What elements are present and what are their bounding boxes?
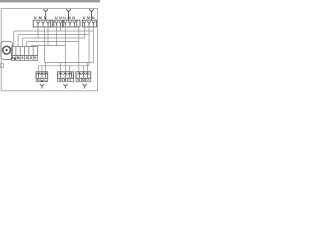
- label U M N above block X1: [34, 16, 47, 20]
- svg-text:2: 2: [21, 56, 23, 60]
- svg-text:U: U: [34, 16, 37, 20]
- pump P1 rotor circle: [3, 46, 11, 54]
- antenna A5 below X5: [63, 84, 67, 89]
- wire X7 terminal 1 drop: [38, 66, 40, 72]
- label U M N above block X3: [63, 16, 75, 20]
- wire X5 terminal 3 drop: [69, 66, 71, 72]
- svg-text:M: M: [82, 78, 85, 82]
- terminal plugs in X2: [55, 21, 62, 26]
- label U N above block X2: [55, 16, 62, 20]
- terminal block X6 (bottom right): [76, 72, 91, 79]
- svg-text:3: 3: [26, 56, 28, 60]
- bus wire b4: [27, 42, 78, 47]
- label row N M U under X6: [76, 78, 91, 81]
- svg-text:U: U: [63, 16, 66, 20]
- svg-text:N: N: [59, 16, 62, 20]
- wire X1.3 down to b5: [47, 27, 49, 46]
- antenna A3 above block X4: [89, 9, 94, 20]
- terminal block X2 (top): [54, 20, 63, 27]
- terminal block X5 (bottom middle): [58, 72, 74, 79]
- terminal plugs in X7: [37, 73, 48, 78]
- svg-text:U: U: [55, 16, 58, 20]
- svg-text:U: U: [83, 16, 86, 20]
- terminal block X1 (top): [33, 20, 52, 27]
- outer border frame of schematic: [1, 9, 97, 91]
- terminal block X7 (bottom left): [36, 72, 48, 79]
- wire X4.1 down to b3 end: [84, 27, 86, 38]
- bus wire b3: [22, 38, 84, 47]
- svg-text:M: M: [41, 79, 44, 83]
- label row N M U under X5: [58, 78, 74, 81]
- bus wire b2: [18, 35, 89, 47]
- svg-text:M: M: [39, 16, 42, 20]
- terminal block X3 (top): [63, 20, 80, 27]
- terminal plugs in X6: [78, 73, 90, 78]
- label row N M U under X7: [36, 78, 48, 81]
- svg-text:M: M: [87, 16, 90, 20]
- terminal plugs in X4: [83, 21, 95, 26]
- wire X1.1 down to b3: [37, 27, 39, 38]
- pump P1 (left device): [1, 41, 13, 59]
- svg-text:M: M: [64, 78, 67, 82]
- pump P1 center dot: [6, 49, 8, 51]
- svg-text:N: N: [44, 16, 47, 20]
- wire X5 terminal 1 drop: [60, 63, 62, 72]
- wire X3.1 straight down to block X5 terminal 2: [64, 27, 66, 72]
- antenna A2 above block X3: [66, 9, 71, 20]
- wire X4.2 down to feeder bus fb: [88, 27, 90, 66]
- wire X6 terminal 2 drop: [83, 66, 85, 72]
- svg-text:N: N: [17, 56, 20, 60]
- antenna A6 below X6: [83, 84, 87, 89]
- wire X2.2 down to b1: [60, 27, 62, 31]
- svg-text:M: M: [68, 16, 71, 20]
- terminal block X4 (top): [82, 20, 96, 27]
- terminal plugs in X5: [59, 73, 72, 78]
- small connector on left border: [1, 64, 4, 68]
- wire X1.2 down to feeder bus fa corner: [44, 27, 46, 63]
- wire X2.1 down to b5: [56, 27, 58, 46]
- bus wire b5: [31, 46, 65, 48]
- svg-text:N: N: [92, 16, 95, 20]
- wire X7 terminal 2 drop: [41, 66, 43, 72]
- top gray band: [0, 0, 100, 2]
- wire X7 terminal 3 drop: [45, 63, 47, 72]
- feeder bus fb: [39, 65, 90, 67]
- terminal strip XS cells: [12, 47, 38, 56]
- wire X6 terminal 3 drop: [87, 63, 89, 72]
- feeder bus fa: [45, 62, 94, 64]
- antenna A4 below X7: [40, 84, 44, 89]
- svg-text:U: U: [45, 79, 48, 83]
- svg-text:N: N: [72, 16, 75, 20]
- svg-text:2: 2: [30, 56, 32, 60]
- terminal strip labels PE N 2 3 2 0: [11, 56, 36, 61]
- antenna A1 above block X1: [43, 9, 48, 20]
- wire X3 spare cell straight down to block X6 terminal 1: [78, 27, 80, 72]
- bus wire b1: [14, 31, 94, 47]
- terminal strip XS label row: [12, 56, 38, 61]
- label U M N above block X4: [83, 16, 95, 20]
- svg-text:0: 0: [34, 56, 36, 60]
- terminal plugs in X1: [36, 21, 49, 26]
- terminal plugs in X3: [64, 21, 77, 26]
- wire X4.3 down to feeder bus fa: [93, 27, 95, 63]
